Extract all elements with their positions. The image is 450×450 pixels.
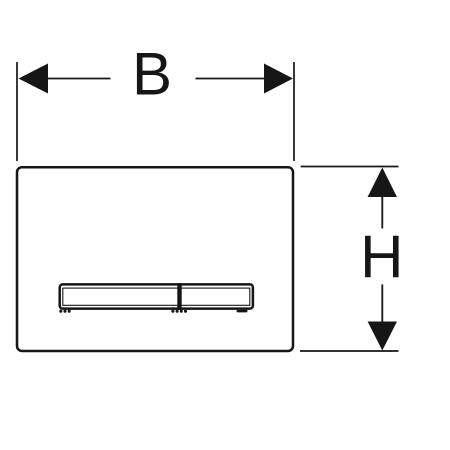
svg-text:B: B (132, 41, 172, 108)
svg-text:H: H (360, 223, 403, 290)
